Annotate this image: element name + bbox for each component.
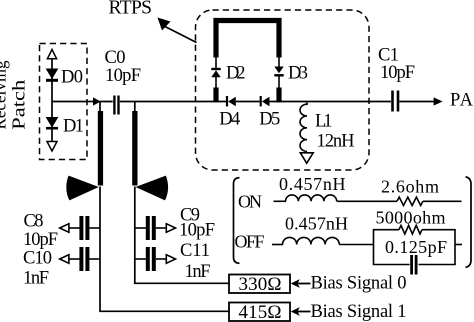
svg-text:1nF: 1nF xyxy=(23,269,49,289)
L1 ground (open triangle down) xyxy=(300,153,313,163)
annotation arrow to RTPS xyxy=(158,18,197,43)
legend left bracket xyxy=(234,178,240,264)
svg-text:10pF: 10pF xyxy=(105,66,141,86)
svg-text:0.125pF: 0.125pF xyxy=(385,237,447,257)
svg-text:0.457nH: 0.457nH xyxy=(279,174,346,194)
inductor OFF 0.457nH xyxy=(283,237,340,244)
right radial stub fan xyxy=(136,176,168,201)
svg-text:1nF: 1nF xyxy=(185,262,211,282)
patch dashed box xyxy=(40,44,88,160)
svg-text:D1: D1 xyxy=(63,117,84,137)
antenna port bottom (open triangle down) xyxy=(47,142,57,152)
capacitor C8 branch xyxy=(23,212,100,251)
arrow Bias Signal 0 xyxy=(291,274,407,294)
svg-text:5000ohm: 5000ohm xyxy=(376,207,446,227)
svg-text:L1: L1 xyxy=(315,112,333,132)
svg-text:RTPS: RTPS xyxy=(109,0,153,19)
wire ON row xyxy=(274,200,287,202)
node arrow into main line xyxy=(93,97,101,105)
left radial stub fan xyxy=(66,176,98,201)
wire main line C0 segment xyxy=(100,101,113,103)
capacitor C10 branch xyxy=(23,247,100,289)
wire between D4 D5 xyxy=(236,101,260,103)
diode D1 xyxy=(46,117,84,137)
svg-text:10pF: 10pF xyxy=(380,63,415,83)
inductor L1 coil xyxy=(300,103,307,152)
left RTPS bar to line xyxy=(213,88,218,103)
svg-text:OFF: OFF xyxy=(235,231,265,251)
wire OFF row xyxy=(272,244,283,246)
arrow to PA xyxy=(434,97,443,105)
svg-text:D0: D0 xyxy=(61,68,83,88)
svg-text:C8: C8 xyxy=(24,212,44,232)
svg-text:330Ω: 330Ω xyxy=(239,274,282,295)
svg-text:C11: C11 xyxy=(180,241,210,261)
right quarter-wave stub (thick bar) xyxy=(132,111,137,186)
capacitor C11 branch xyxy=(135,241,211,282)
svg-text:C10: C10 xyxy=(23,249,52,269)
arrow Bias Signal 1 xyxy=(291,302,407,322)
svg-text:ON: ON xyxy=(238,191,262,211)
wire main line to D4 xyxy=(120,101,227,103)
wire C1 to PA xyxy=(399,101,434,103)
svg-text:C0: C0 xyxy=(105,48,126,68)
svg-text:D4: D4 xyxy=(219,110,240,130)
label Receiving Patch xyxy=(0,61,29,130)
diode D2 xyxy=(211,56,245,88)
wire left bias drop xyxy=(100,187,229,312)
bias resistor box 330 xyxy=(229,274,290,295)
wire xyxy=(423,200,462,202)
bias resistor box 415 xyxy=(229,302,290,322)
wire drop to left stub xyxy=(99,102,101,113)
inductor ON 0.457nH xyxy=(286,195,337,201)
patch feed wire xyxy=(51,50,53,150)
thick U transmission line xyxy=(216,21,279,58)
diode D4 xyxy=(219,96,240,130)
svg-text:D2: D2 xyxy=(226,63,246,83)
svg-text:415Ω: 415Ω xyxy=(239,302,282,322)
wire: patch tap to main line xyxy=(52,101,94,103)
svg-text:10pF: 10pF xyxy=(179,221,215,241)
svg-text:D3: D3 xyxy=(288,63,308,83)
antenna port (open triangle up) xyxy=(47,50,56,59)
svg-text:D5: D5 xyxy=(259,110,280,130)
wire xyxy=(337,200,397,202)
svg-text:12nH: 12nH xyxy=(317,132,355,152)
diode D5 xyxy=(259,96,280,130)
left quarter-wave stub (thick bar) xyxy=(98,111,103,186)
diode D0 xyxy=(46,68,83,88)
wire right bias drop xyxy=(135,187,229,284)
wire box to bracket xyxy=(455,244,462,246)
RTPS dashed box xyxy=(196,10,370,170)
wire drop to right stub xyxy=(134,102,136,113)
resistor 2.6ohm xyxy=(397,197,423,205)
svg-text:10pF: 10pF xyxy=(23,230,58,250)
svg-text:Bias Signal 1: Bias Signal 1 xyxy=(311,302,407,322)
svg-text:2.6ohm: 2.6ohm xyxy=(381,177,439,197)
diode D3 xyxy=(274,56,308,88)
wire D5 to C1 xyxy=(270,101,391,103)
svg-text:0.457nH: 0.457nH xyxy=(285,214,348,234)
svg-text:Patch: Patch xyxy=(9,80,29,130)
right RTPS bar to line xyxy=(276,88,281,103)
svg-text:PA: PA xyxy=(450,91,474,111)
legend right bracket xyxy=(466,177,472,268)
capacitor C1 xyxy=(378,46,415,112)
capacitor C9 branch xyxy=(135,206,215,241)
RC box with 5000ohm resistor and 0.125pF cap xyxy=(374,207,456,274)
wire xyxy=(339,244,373,246)
capacitor C0 xyxy=(105,48,142,115)
svg-text:Bias Signal 0: Bias Signal 0 xyxy=(311,274,407,294)
